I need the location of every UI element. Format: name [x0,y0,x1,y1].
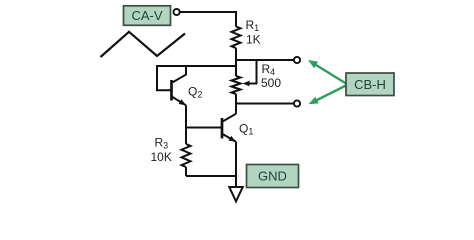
svg-text:10K: 10K [151,150,172,164]
svg-text:CA-V: CA-V [131,8,162,23]
svg-text:GND: GND [258,169,287,184]
svg-text:1K: 1K [246,33,261,47]
svg-text:CB-H: CB-H [354,77,386,92]
svg-text:500: 500 [261,76,281,90]
